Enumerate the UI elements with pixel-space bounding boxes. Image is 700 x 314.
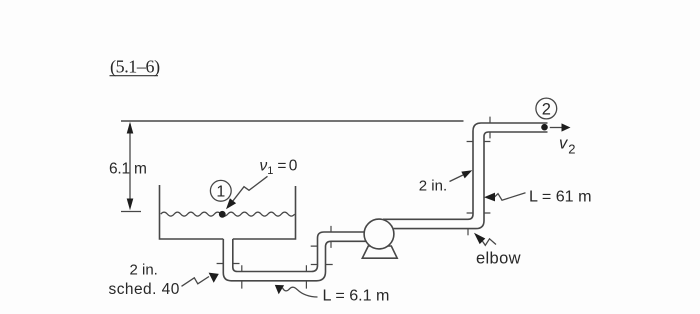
svg-text:ν: ν xyxy=(260,157,268,174)
svg-text:2 in.: 2 in. xyxy=(419,178,447,195)
svg-text:sched. 40: sched. 40 xyxy=(109,281,180,298)
svg-text:0: 0 xyxy=(289,157,298,174)
svg-text:2: 2 xyxy=(542,100,551,118)
svg-text:L = 6.1 m: L = 6.1 m xyxy=(323,287,390,305)
svg-text:6.1 m: 6.1 m xyxy=(109,161,147,178)
svg-text:L = 61 m: L = 61 m xyxy=(529,187,591,205)
svg-text:elbow: elbow xyxy=(476,250,521,268)
svg-text:1: 1 xyxy=(267,165,273,177)
svg-text:=: = xyxy=(277,157,286,174)
svg-text:1: 1 xyxy=(216,184,225,201)
svg-text:2: 2 xyxy=(568,141,575,156)
svg-text:(5.1–6): (5.1–6) xyxy=(110,57,160,78)
svg-text:2 in.: 2 in. xyxy=(130,262,158,279)
